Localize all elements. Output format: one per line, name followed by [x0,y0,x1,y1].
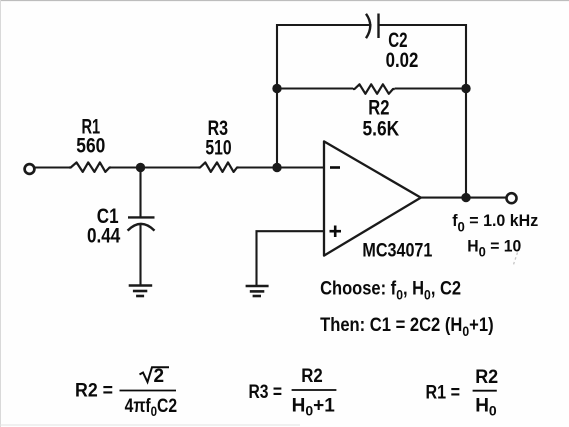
wire: op-amp output to node E [421,197,466,199]
resistor R3 [199,162,239,172]
resistor R1 [69,162,111,172]
wire: C1 to ground [139,224,141,286]
capacitor C2 [366,14,379,39]
node D (R2 right junction) [461,84,470,93]
formula: R1 = R2 / H0 [426,367,499,419]
svg-text:MC34071: MC34071 [362,241,432,262]
svg-text:R3 =: R3 = [249,382,283,403]
label: MC34071 [362,241,432,262]
scan edge bottom line [0,424,300,426]
input terminal [25,164,35,174]
label: C1 0.44 [87,205,121,247]
wire: node E to output terminal [466,197,506,199]
label: C2 0.02 [386,29,419,72]
svg-text:5.6K: 5.6K [363,118,400,141]
svg-text:Choose: f0, H0, C2: Choose: f0, H0, C2 [320,279,461,303]
wire: R2 left lead [277,87,353,89]
wire: node B to op-amp inverting input [277,166,324,168]
formula: R3 = R2 / (H0+1) [249,366,337,418]
label: H0 = 10 [467,236,521,259]
svg-text:R2 =: R2 = [75,381,113,402]
wire: non-inverting input [257,231,325,285]
svg-text:R2: R2 [301,366,323,387]
label: Then C1 = 2C2 (H0+1) [320,315,494,339]
op-amp U1 [324,141,421,255]
svg-text:R2: R2 [368,97,389,120]
svg-text:510: 510 [205,137,231,160]
wire: input to R1 [35,166,70,168]
ground (non-inverting input) [246,286,269,296]
svg-text:0.02: 0.02 [386,49,419,72]
wire: top feedback right segment [379,24,467,26]
wire: node A to R3 [141,166,199,168]
scan edge left line [0,0,2,427]
scan edge top line [0,0,569,2]
capacitor C1 [128,217,155,230]
svg-text:2: 2 [154,366,165,387]
wire: node A down to C1 [139,168,141,218]
label: R3 510 [205,117,231,160]
svg-text:0.44: 0.44 [87,225,121,248]
wire: R2 right lead [395,87,466,89]
scan scratch mark below H0 = 10 [513,253,518,267]
wire: R3 to node B [239,166,278,168]
svg-text:H0+1: H0+1 [292,395,336,418]
label: f0 = 1.0 kHz [452,211,538,235]
ground (C1) [129,286,153,297]
svg-text:R2: R2 [475,367,498,388]
output terminal [507,193,517,203]
node C (R2 left junction) [272,84,281,93]
node E (output junction) [461,193,470,202]
svg-text:560: 560 [76,134,105,157]
formula: R2 = sqrt(2) / (4 pi f0 C2) [75,366,177,419]
node B (junction at inverting input) [272,163,281,172]
svg-text:R1 =: R1 = [426,382,461,403]
resistor R2 [353,84,395,94]
label: R2 5.6K [363,97,400,141]
wire: node B up to top feedback rail [276,24,278,168]
label: R1 560 [76,116,105,158]
wire: top feedback left segment [276,24,372,26]
label: Choose f0, H0, C2 [320,279,461,303]
node A (junction R1 / R3 / C1) [136,163,145,172]
wire: right feedback vertical [465,24,467,198]
wire: R1 to node A [111,166,141,168]
